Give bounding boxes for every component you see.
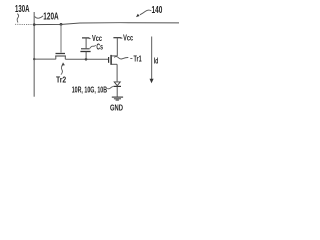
- wire: row wire left of Tr2: [34, 58, 56, 60]
- node: junction Tr2 gate with top line: [60, 23, 63, 26]
- transistor Tr2 channel top: [55, 55, 66, 57]
- ground bar 3: [116, 99, 119, 101]
- leader squiggle for 120A: [35, 16, 44, 18]
- leader squiggle for Tr2: [61, 65, 63, 75]
- node: junction Cs with wire: [85, 58, 88, 61]
- leader tick for Vcc left label: [89, 38, 91, 40]
- wire: Vcc bar to Tr1 drain: [116, 38, 118, 56]
- svg-text:10R, 10G, 10B: 10R, 10G, 10B: [72, 85, 108, 94]
- svg-text:Vcc: Vcc: [123, 34, 133, 43]
- ground bar 1: [112, 96, 123, 98]
- transistor Tr2 gate bar: [56, 53, 66, 55]
- wire: Tr1 source down to OLED: [116, 64, 118, 81]
- leader squiggle for 10B label: [107, 87, 113, 89]
- leader squiggle for 130A: [17, 14, 19, 23]
- diode OLED cathode bar: [113, 85, 121, 87]
- wire: Tr2 gate lead: [60, 24, 62, 52]
- svg-text:Tr1: Tr1: [134, 54, 143, 63]
- svg-text:120A: 120A: [43, 11, 58, 22]
- wire: Cs to row wire: [85, 52, 87, 60]
- svg-text:Tr2: Tr2: [56, 75, 67, 84]
- diode OLED triangle: [114, 82, 120, 86]
- power Vcc left bar: [82, 37, 89, 39]
- leader tick for Vcc right label: [120, 37, 122, 39]
- wire: OLED cathode to ground: [116, 87, 118, 97]
- leader squiggle for Cs: [90, 45, 96, 48]
- svg-text:140: 140: [152, 5, 163, 16]
- transistor Tr1 drain stub: [111, 55, 117, 57]
- leader arrow for 140: [140, 10, 151, 15]
- wire: Vcc bar to Cs: [85, 38, 87, 48]
- svg-text:GND: GND: [110, 103, 123, 113]
- wire: top horizontal line: [34, 23, 179, 25]
- ground bar 2: [114, 98, 121, 100]
- node: junction data line with top line: [33, 23, 36, 26]
- transistor Tr2 source/drain risers: [56, 56, 66, 59]
- transistor Tr1 source stub: [111, 63, 117, 65]
- capacitor Cs bottom plate: [80, 51, 90, 53]
- current arrow Id line: [151, 37, 153, 80]
- wire: top horizontal line (left dotted part): [15, 23, 34, 25]
- node: junction data line with row wire: [33, 58, 35, 60]
- transistor Tr1 channel bar: [110, 55, 112, 65]
- wire: vertical data line: [33, 12, 35, 97]
- svg-text:Cs: Cs: [96, 42, 103, 51]
- current arrow Id head: [150, 79, 154, 83]
- capacitor Cs top plate: [81, 48, 90, 50]
- transistor Tr1 gate bar: [108, 57, 110, 63]
- power Vcc right bar: [113, 37, 121, 39]
- leader squiggle for Tr1: [114, 57, 132, 59]
- svg-text:Id: Id: [154, 56, 159, 65]
- wire: Tr2 to Tr1 gate: [65, 58, 108, 60]
- svg-text:130A: 130A: [15, 4, 30, 15]
